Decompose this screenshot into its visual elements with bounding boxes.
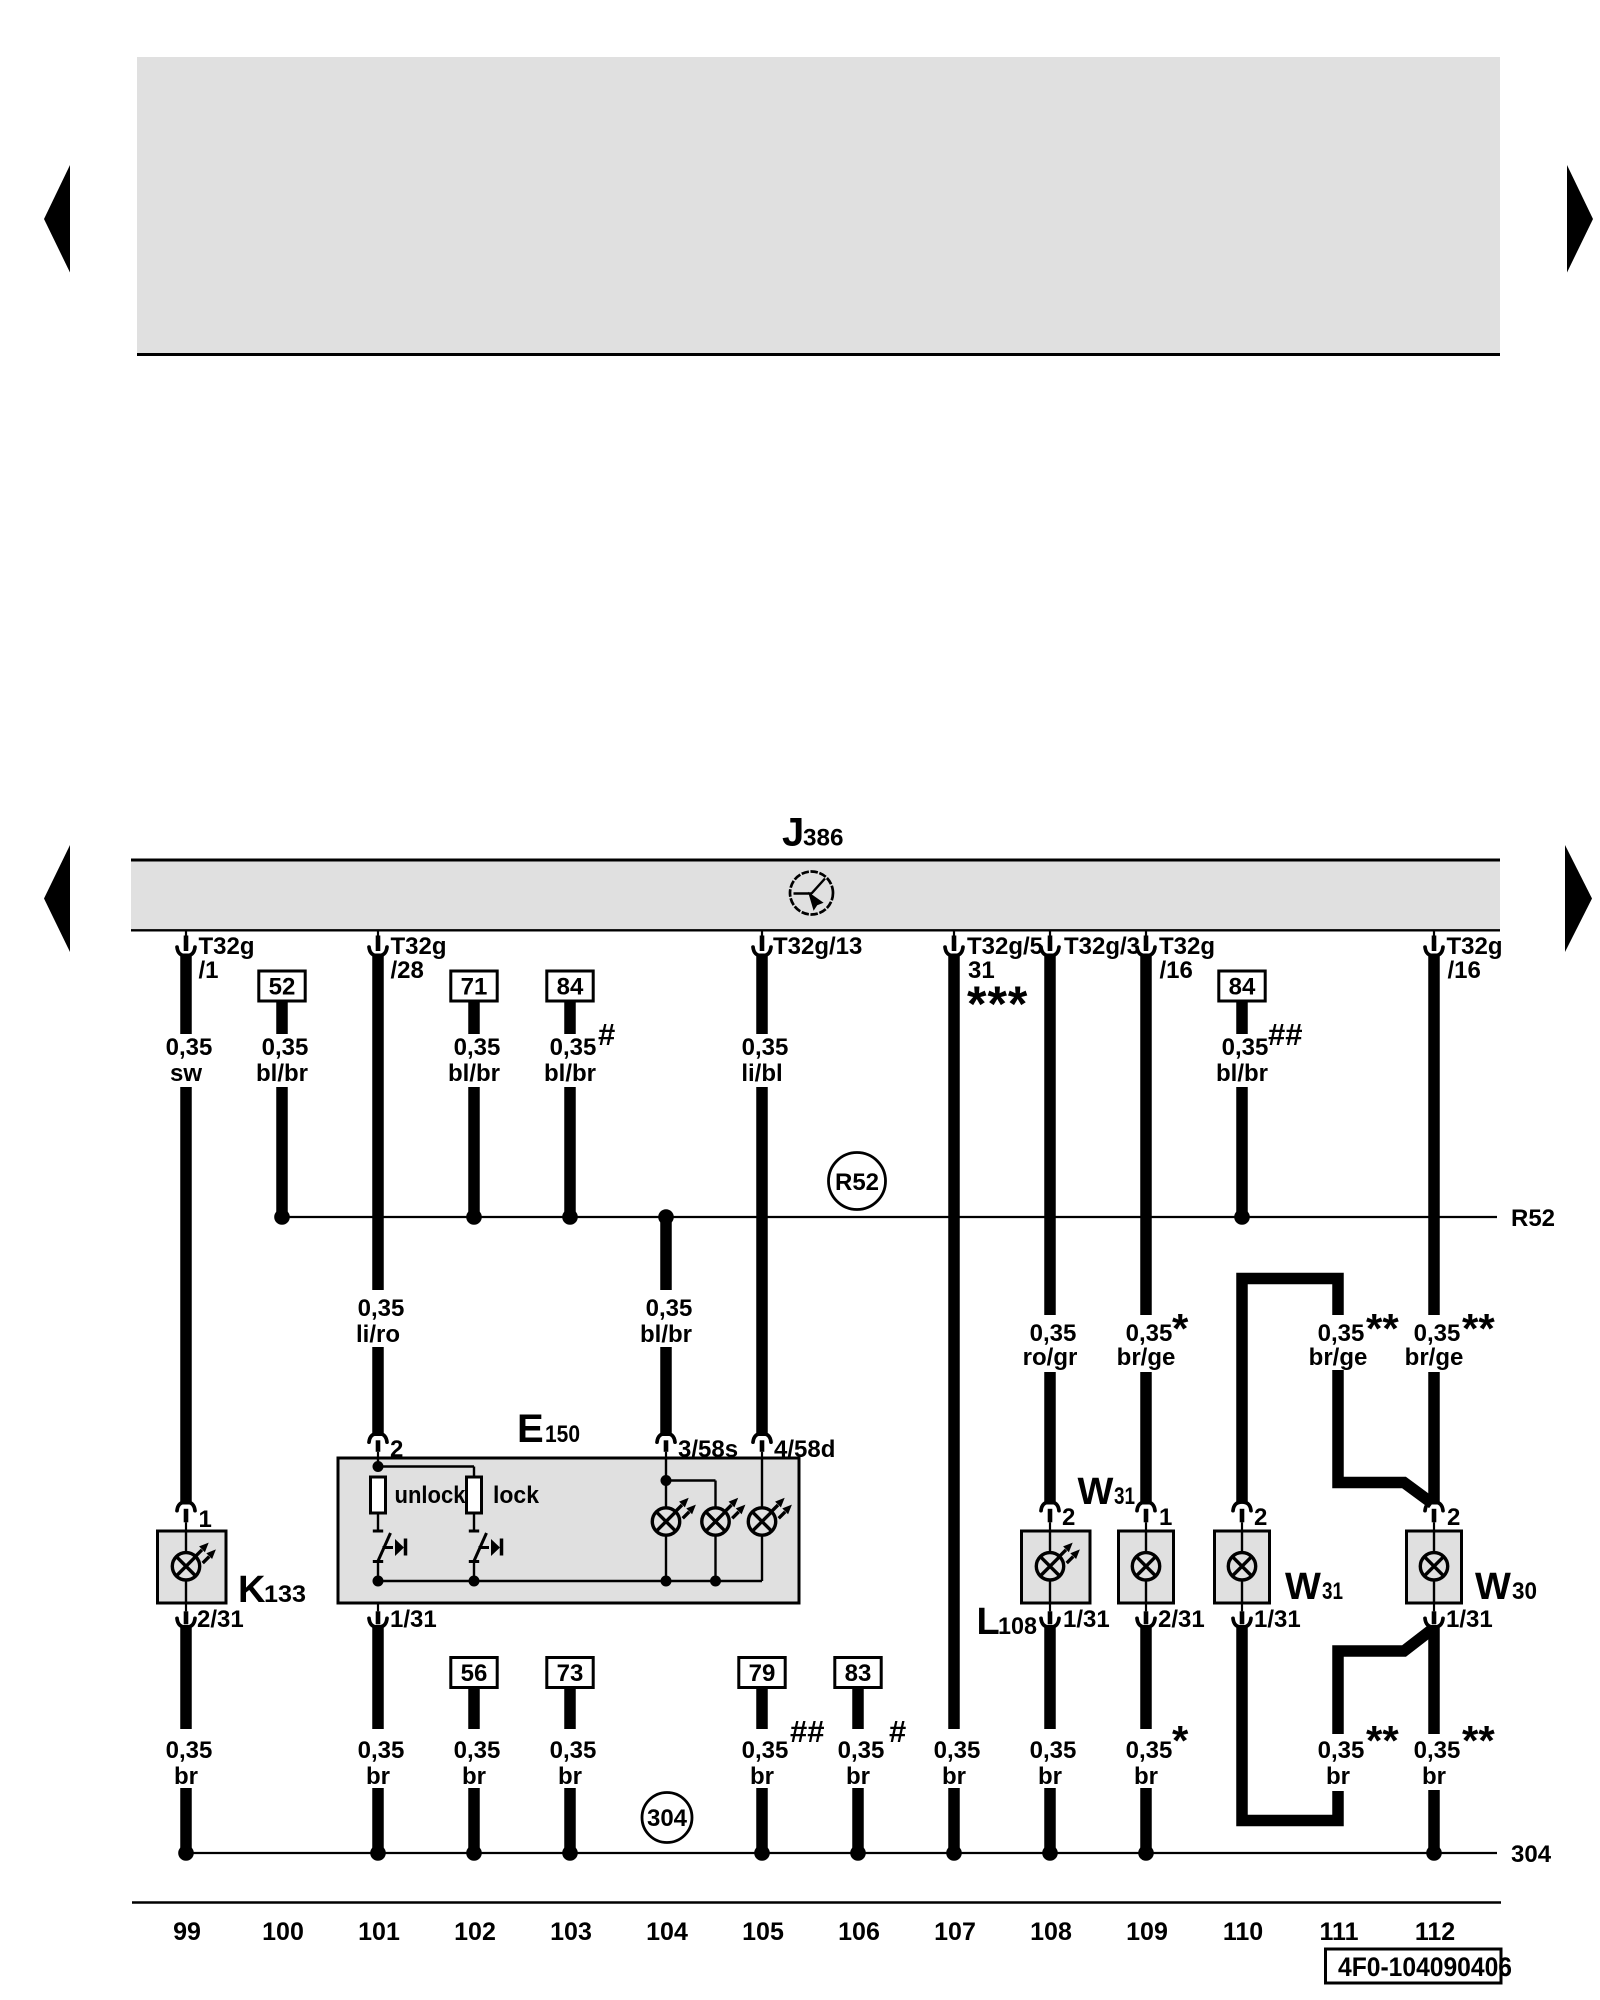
connector pin 2 of E150 <box>369 1434 387 1443</box>
svg-text:2/31: 2/31 <box>197 1606 244 1633</box>
junction wire 103 / node R52 <box>562 1209 578 1225</box>
svg-text:2: 2 <box>1254 1504 1267 1531</box>
svg-text:2: 2 <box>1447 1504 1460 1531</box>
svg-text:4F0-104090406: 4F0-104090406 <box>1338 1952 1512 1982</box>
svg-text:0,35: 0,35 <box>1222 1034 1269 1061</box>
svg-text:56: 56 <box>461 1660 488 1687</box>
svg-text:#: # <box>889 1714 906 1749</box>
svg-text:0,35: 0,35 <box>1030 1737 1077 1764</box>
svg-text:0,35: 0,35 <box>646 1295 693 1322</box>
E150 illumination lamp 2 <box>702 1508 729 1535</box>
svg-text:T32g/13: T32g/13 <box>773 933 862 960</box>
junction wire 112 / node 304 <box>1426 1845 1442 1861</box>
wire loop W31 1/31 to W30 1/31 (lower) <box>1242 1625 1338 1821</box>
svg-text:104: 104 <box>646 1918 688 1946</box>
wire 0,35 br below box 56 <box>468 1687 480 1730</box>
svg-text:br: br <box>846 1763 870 1790</box>
svg-text:br: br <box>942 1763 966 1790</box>
svg-text:386: 386 <box>803 825 844 852</box>
wire 0,35# br below box 83 <box>852 1687 864 1730</box>
svg-text:bl/br: bl/br <box>256 1060 308 1087</box>
junction wire 107 / node 304 <box>946 1845 962 1861</box>
svg-text:0,35: 0,35 <box>550 1034 597 1061</box>
svg-text:0,35: 0,35 <box>1030 1320 1077 1347</box>
svg-text:W: W <box>1078 1471 1114 1513</box>
E150 illumination lamp 1 <box>652 1508 679 1535</box>
svg-text:*: * <box>1172 1717 1189 1764</box>
wire continues to K133 pin 1 <box>180 1087 192 1505</box>
wire 0,35 li/ro from T32g/28 <box>372 954 384 1291</box>
svg-text:T32g/5: T32g/5 <box>967 933 1043 960</box>
terminal designation box 83 <box>835 1658 881 1688</box>
svg-text:br/ge: br/ge <box>1309 1344 1368 1371</box>
junction wire 108 / node 304 <box>1042 1845 1058 1861</box>
svg-text:1/31: 1/31 <box>1446 1606 1493 1633</box>
wire continues to E150 pin 2 <box>372 1347 384 1436</box>
connector T32g/16 at J386 <box>1145 930 1147 942</box>
connector pin 4/58d of E150 <box>753 1434 771 1443</box>
terminal designation box 73 <box>547 1658 593 1688</box>
E150 junction <box>710 1576 721 1587</box>
svg-text:T32g: T32g <box>391 933 447 960</box>
connector pin 1/31 of E150 <box>377 1603 379 1612</box>
svg-text:lock: lock <box>493 1482 540 1509</box>
svg-text:103: 103 <box>550 1918 592 1946</box>
svg-text:**: ** <box>1462 1717 1495 1764</box>
terminal designation box 79 <box>739 1658 785 1688</box>
svg-text:100: 100 <box>262 1918 304 1946</box>
svg-text:0,35: 0,35 <box>1126 1320 1173 1347</box>
connector T32g/16 at J386 <box>1433 930 1435 942</box>
svg-text:sw: sw <box>170 1060 202 1087</box>
svg-text:**: ** <box>1462 1305 1495 1352</box>
svg-text:1/31: 1/31 <box>1063 1606 1110 1633</box>
connector pin 3/58s of E150 <box>657 1434 675 1443</box>
svg-text:***: *** <box>967 976 1028 1032</box>
svg-text:/16: /16 <box>1448 957 1481 984</box>
connector pin 1/31 of W30 <box>1433 1603 1435 1612</box>
page-turn arrow right (bus) <box>1565 845 1592 952</box>
svg-text:0,35: 0,35 <box>742 1737 789 1764</box>
connector T32g/3 at J386 <box>1049 930 1051 942</box>
terminal designation box 71 <box>451 971 497 1001</box>
svg-text:150: 150 <box>545 1421 580 1448</box>
wire 0,35 br from T32g/5 to 304 <box>948 954 960 1730</box>
E150 illumination lamp 3 <box>748 1508 775 1535</box>
svg-text:br: br <box>1422 1763 1446 1790</box>
connector pin 1 of W31 <box>1137 1502 1155 1511</box>
svg-text:112: 112 <box>1415 1918 1455 1946</box>
wire 0,35 br below box 73 <box>564 1687 576 1730</box>
connector pin 1/31 of W31 (second) <box>1241 1603 1243 1612</box>
terminal designation box 84 <box>547 971 593 1001</box>
svg-text:110: 110 <box>1223 1918 1263 1946</box>
junction wire 104 / node R52 <box>658 1209 674 1225</box>
svg-text:0,35: 0,35 <box>454 1737 501 1764</box>
R52 reference circle <box>829 1153 886 1210</box>
svg-text:E: E <box>517 1407 544 1451</box>
svg-text:/16: /16 <box>1160 957 1193 984</box>
wire 0,35 ro/gr from T32g/3 <box>1044 954 1056 1316</box>
svg-text:0,35: 0,35 <box>934 1737 981 1764</box>
junction wire 103 / node 304 <box>562 1845 578 1861</box>
connector T32g/1 at J386 <box>185 930 187 942</box>
wire 0,35## bl/br below box 84 <box>1236 1001 1248 1034</box>
part number box <box>1326 1949 1502 1983</box>
svg-text:br: br <box>1326 1763 1350 1790</box>
svg-text:br: br <box>462 1763 486 1790</box>
lamp W30 (luggage compartment) <box>1407 1531 1462 1603</box>
svg-text:79: 79 <box>749 1660 776 1687</box>
svg-text:unlock: unlock <box>395 1482 467 1509</box>
E150 internal junction at pin 2 <box>373 1461 384 1472</box>
svg-text:107: 107 <box>934 1918 976 1946</box>
svg-text:W: W <box>1285 1566 1321 1608</box>
svg-text:105: 105 <box>742 1918 784 1946</box>
svg-text:99: 99 <box>173 1918 201 1946</box>
page-turn arrow left (bus) <box>44 845 70 952</box>
svg-text:0,35: 0,35 <box>1414 1737 1461 1764</box>
connector pin 2/31 of K133 <box>185 1603 187 1612</box>
E150 junction <box>373 1576 384 1587</box>
svg-text:bl/br: bl/br <box>448 1060 500 1087</box>
pushbutton switch (lock) <box>469 1531 502 1562</box>
terminal designation box 56 <box>451 1658 497 1688</box>
svg-text:106: 106 <box>838 1918 880 1946</box>
wire 0,35 bl/br below box 52 <box>276 1001 288 1034</box>
connector T32g/28 at J386 <box>377 930 379 942</box>
lamp W31 (interior light rear) <box>1119 1531 1174 1603</box>
E150 internal bus to pin 1/31 <box>378 1580 762 1583</box>
svg-text:304: 304 <box>1511 1841 1552 1868</box>
wire 0,35 bl/br from R52 <box>660 1217 672 1290</box>
svg-text:**: ** <box>1366 1717 1399 1764</box>
switch unit E150 (central locking, boot lid) <box>338 1458 799 1603</box>
svg-text:L: L <box>977 1601 1000 1643</box>
svg-text:1/31: 1/31 <box>390 1606 437 1633</box>
svg-text:br: br <box>174 1763 198 1790</box>
svg-text:0,35: 0,35 <box>1126 1737 1173 1764</box>
connector pin 2 of W30 <box>1425 1502 1443 1511</box>
wire 0,35** br/ge from T32g/16 <box>1428 954 1440 1316</box>
terminal designation box 84 <box>1219 971 1265 1001</box>
svg-text:0,35: 0,35 <box>742 1034 789 1061</box>
svg-text:br: br <box>750 1763 774 1790</box>
footer separator line <box>132 1901 1501 1904</box>
svg-text:0,35: 0,35 <box>358 1295 405 1322</box>
pushbutton switch (unlock) <box>373 1531 406 1562</box>
svg-text:br: br <box>366 1763 390 1790</box>
wire 0,35 br from L108 to 304 <box>1044 1625 1056 1729</box>
diagnostic-K symbol inside J386 <box>790 872 833 915</box>
lamp L108 (luggage compartment light) <box>1022 1531 1091 1603</box>
E150 junction <box>661 1576 672 1587</box>
svg-text:br: br <box>558 1763 582 1790</box>
svg-text:T32g: T32g <box>1447 933 1503 960</box>
svg-text:71: 71 <box>461 974 488 1001</box>
wire loop W31 pin 2 to W30 pin 2 (upper) <box>1242 1279 1338 1504</box>
svg-text:30: 30 <box>1512 1578 1537 1605</box>
connector pin 2 of W31 (second) <box>1233 1502 1251 1511</box>
svg-text:**: ** <box>1366 1305 1399 1352</box>
svg-text:31: 31 <box>1322 1578 1343 1605</box>
resistor (unlock coil) <box>371 1477 386 1513</box>
svg-text:K: K <box>238 1569 266 1611</box>
svg-text:0,35: 0,35 <box>358 1737 405 1764</box>
svg-text:84: 84 <box>1229 974 1256 1001</box>
junction wire 99 / node 304 <box>178 1845 194 1861</box>
junction wire 101 / node 304 <box>370 1845 386 1861</box>
svg-text:31: 31 <box>1114 1483 1135 1510</box>
svg-text:/28: /28 <box>391 957 424 984</box>
svg-text:1: 1 <box>199 1506 212 1533</box>
connector T32g/5 at J386 <box>953 930 955 942</box>
svg-text:bl/br: bl/br <box>1216 1060 1268 1087</box>
svg-text:/1: /1 <box>199 957 219 984</box>
terminal designation box 52 <box>259 971 305 1001</box>
svg-text:li/bl: li/bl <box>741 1060 782 1087</box>
lamp W31 (second, interior light) <box>1215 1531 1270 1603</box>
ground node 304 line <box>186 1852 1497 1854</box>
wire 0,35* br/ge from T32g/16 <box>1140 954 1152 1316</box>
wire 0,35 bl/br below box 71 <box>468 1001 480 1034</box>
svg-text:0,35: 0,35 <box>262 1034 309 1061</box>
wire 0,35 li/bl from T32g/13 <box>756 954 768 1035</box>
page-turn arrow left (top) <box>44 165 70 273</box>
junction wire 110 / node R52 <box>1234 1209 1250 1225</box>
junction wire 100 / node R52 <box>274 1209 290 1225</box>
wire continues to W30 pin 2 <box>1428 1372 1440 1505</box>
connector pin 2/31 of W31 <box>1145 1603 1147 1612</box>
svg-text:br: br <box>1134 1763 1158 1790</box>
svg-text:109: 109 <box>1126 1918 1168 1946</box>
header panel (grey) <box>137 57 1500 353</box>
svg-text:1: 1 <box>1159 1504 1172 1531</box>
svg-text:108: 108 <box>998 1613 1037 1640</box>
svg-text:84: 84 <box>557 974 584 1001</box>
junction wire 106 / node 304 <box>850 1845 866 1861</box>
svg-text:T32g/3: T32g/3 <box>1064 933 1140 960</box>
svg-text:73: 73 <box>557 1660 584 1687</box>
svg-text:0,35: 0,35 <box>1318 1320 1365 1347</box>
svg-text:2: 2 <box>1062 1504 1075 1531</box>
svg-text:#: # <box>598 1017 615 1052</box>
connector pin 2 of L108 <box>1041 1502 1059 1511</box>
svg-text:R52: R52 <box>1511 1205 1555 1232</box>
junction wire 102 / node R52 <box>466 1209 482 1225</box>
wire continues to W31 pin 1 <box>1140 1372 1152 1505</box>
svg-text:bl/br: bl/br <box>640 1321 692 1348</box>
svg-text:304: 304 <box>647 1805 688 1832</box>
svg-text:2/31: 2/31 <box>1158 1606 1205 1633</box>
svg-text:br/ge: br/ge <box>1117 1344 1176 1371</box>
wire continues to L108 pin 2 <box>1044 1372 1056 1505</box>
junction wire 109 / node 304 <box>1138 1845 1154 1861</box>
svg-text:52: 52 <box>269 974 296 1001</box>
wire 0,35 br from K133 to 304 <box>180 1625 192 1729</box>
E150 internal wiring <box>377 1459 379 1467</box>
connector pin 1 of K133 <box>177 1502 195 1511</box>
node R52 distribution line <box>282 1216 1497 1218</box>
svg-text:83: 83 <box>845 1660 872 1687</box>
svg-text:li/ro: li/ro <box>356 1321 400 1348</box>
wire 0,35** br from W30 to 304 <box>1428 1625 1440 1734</box>
svg-text:0,35: 0,35 <box>1318 1737 1365 1764</box>
junction wire 105 / node 304 <box>754 1845 770 1861</box>
control module J386 (bus bar) <box>131 860 1500 930</box>
svg-text:0,35: 0,35 <box>838 1737 885 1764</box>
304 reference circle <box>642 1793 692 1843</box>
svg-text:108: 108 <box>1030 1918 1072 1946</box>
svg-text:0,35: 0,35 <box>454 1034 501 1061</box>
svg-text:133: 133 <box>264 1581 306 1608</box>
svg-text:101: 101 <box>358 1918 400 1946</box>
E150 lamp feed wiring <box>665 1459 667 1481</box>
svg-text:111: 111 <box>1320 1918 1359 1946</box>
svg-text:0,35: 0,35 <box>166 1737 213 1764</box>
svg-text:br: br <box>1038 1763 1062 1790</box>
svg-text:102: 102 <box>454 1918 496 1946</box>
wire 0,35# bl/br below box 84 <box>564 1001 576 1034</box>
E150 junction at pin 3/58s <box>661 1475 672 1486</box>
svg-text:0,35: 0,35 <box>1414 1320 1461 1347</box>
wire 0,35## br below box 79 <box>756 1687 768 1730</box>
svg-text:J: J <box>782 811 804 855</box>
junction wire 102 / node 304 <box>466 1845 482 1861</box>
lamp K133 (boot lid open warning) <box>158 1531 227 1603</box>
resistor (lock coil) <box>467 1477 482 1513</box>
svg-text:##: ## <box>790 1714 824 1749</box>
svg-text:R52: R52 <box>835 1169 879 1196</box>
svg-text:1/31: 1/31 <box>1254 1606 1301 1633</box>
svg-text:0,35: 0,35 <box>550 1737 597 1764</box>
wire 0,35* br to 304 <box>1140 1625 1152 1729</box>
svg-text:##: ## <box>1268 1017 1302 1052</box>
svg-text:bl/br: bl/br <box>544 1060 596 1087</box>
svg-text:W: W <box>1475 1566 1511 1608</box>
page-turn arrow right (top) <box>1567 165 1593 273</box>
connector T32g/13 at J386 <box>761 930 763 942</box>
svg-text:T32g: T32g <box>1159 933 1215 960</box>
svg-text:T32g: T32g <box>199 933 255 960</box>
svg-text:ro/gr: ro/gr <box>1023 1344 1078 1371</box>
connector pin 1/31 of L108 <box>1049 1603 1051 1612</box>
wire 0,35 sw from T32g/1 <box>180 954 192 1035</box>
E150 junction <box>469 1576 480 1587</box>
svg-text:br/ge: br/ge <box>1405 1344 1464 1371</box>
svg-text:0,35: 0,35 <box>166 1034 213 1061</box>
wire 0,35 br from E150 to 304 <box>372 1625 384 1729</box>
